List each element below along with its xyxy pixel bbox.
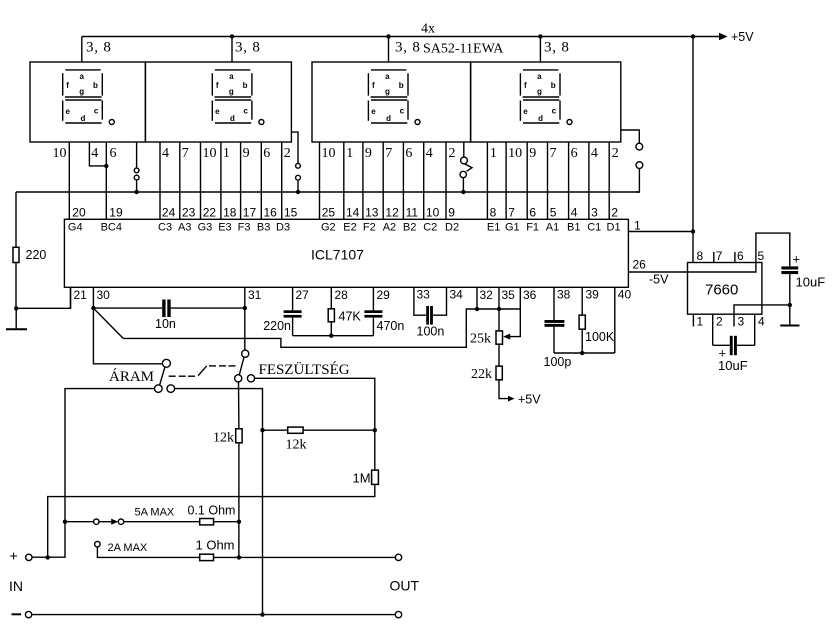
wire stub rail to display1 <box>81 37 83 63</box>
svg-text:6: 6 <box>405 146 412 161</box>
display DIS1 7-segment glyph <box>63 70 115 125</box>
+5V arrow bottom <box>508 396 515 402</box>
wire ICL pin33 stub <box>414 287 426 315</box>
capacitor 10n <box>162 300 171 318</box>
svg-text:10: 10 <box>426 206 440 220</box>
svg-text:1 Ohm: 1 Ohm <box>196 538 235 553</box>
jumper J2 display2 decimal point <box>291 132 300 192</box>
svg-text:1: 1 <box>634 219 641 233</box>
svg-text:220: 220 <box>26 248 47 262</box>
resistor 0.1 Ohm <box>200 519 214 525</box>
wire ICL pin26 to 7660 <box>628 271 687 273</box>
svg-text:SA52-11EWA: SA52-11EWA <box>423 42 504 57</box>
wire 12k-h node <box>263 429 288 431</box>
svg-text:100p: 100p <box>544 355 572 369</box>
wire display3 pin6 to ICL pin11 <box>402 142 404 219</box>
svg-text:7: 7 <box>550 146 557 161</box>
wiper arrow <box>503 334 510 340</box>
svg-text:24: 24 <box>162 206 176 220</box>
wire FESZ left contact down <box>238 382 240 429</box>
svg-text:4: 4 <box>91 146 98 161</box>
wire 38-39-40 join <box>554 352 615 354</box>
wire ICL pin1 to +5V drop <box>628 231 693 233</box>
capacitor 470n <box>364 310 382 317</box>
pin 7 stub <box>713 252 715 263</box>
wire switch common run <box>123 309 520 347</box>
display DIS2 7-segment glyph <box>212 70 264 125</box>
svg-text:7: 7 <box>385 146 392 161</box>
svg-text:13: 13 <box>365 206 379 220</box>
wire ICL pin32 stub <box>476 287 478 309</box>
jumper J4 display4 decimal point <box>621 130 643 192</box>
svg-text:0.1 Ohm: 0.1 Ohm <box>188 504 236 518</box>
junction pin35 <box>497 307 501 311</box>
svg-text:6: 6 <box>263 146 270 161</box>
wire 10n to pin31 <box>171 307 245 309</box>
svg-text:18: 18 <box>223 206 237 220</box>
wire display2 pin9 to ICL pin17 <box>240 142 242 219</box>
wire 220 to ground node <box>15 263 17 309</box>
display DIS2 box <box>145 62 291 142</box>
wire stub rail to display3 <box>388 37 390 63</box>
wire bottom cap to pin4 <box>737 344 755 346</box>
svg-text:4: 4 <box>162 146 169 161</box>
display DIS4 7-segment glyph <box>520 70 572 125</box>
svg-text:+: + <box>10 548 18 564</box>
svg-text:A1: A1 <box>546 222 559 234</box>
svg-text:3: 3 <box>738 315 745 329</box>
svg-text:4: 4 <box>571 206 578 220</box>
capacitor 100n <box>426 306 433 325</box>
svg-text:B3: B3 <box>257 222 270 234</box>
svg-text:12: 12 <box>385 206 399 220</box>
junction 1M top <box>373 428 377 432</box>
wire ICL pin28 stub <box>330 287 332 309</box>
svg-text:E3: E3 <box>218 222 231 234</box>
junction 47K bottom <box>329 334 333 338</box>
svg-text:22: 22 <box>203 206 217 220</box>
svg-text:27: 27 <box>296 288 310 302</box>
wire ICL pin21 stub <box>70 287 72 308</box>
wire bus down to R 220 <box>15 192 17 247</box>
wire display4 pin9 to ICL pin6 <box>526 142 528 219</box>
svg-text:4: 4 <box>591 146 598 161</box>
junction J2 on DP bus <box>296 190 300 194</box>
ground symbol left <box>6 308 27 329</box>
wire ICL pin35 stub <box>498 287 500 331</box>
svg-text:8: 8 <box>490 206 497 220</box>
terminal plus IN <box>26 554 32 560</box>
ground symbol right <box>780 325 799 327</box>
pin 2 stub 7660 <box>712 314 714 345</box>
wire 12k-h to 1M node <box>303 429 375 431</box>
svg-text:ÁRAM: ÁRAM <box>109 368 154 385</box>
wire FESZ right contact to 1M <box>255 378 375 430</box>
svg-text:D2: D2 <box>445 222 459 234</box>
svg-text:26: 26 <box>633 258 647 272</box>
svg-text:1: 1 <box>346 146 353 161</box>
wire 1M bottom to plus input <box>48 484 375 557</box>
wire display4 pin1 to ICL pin8 <box>486 142 488 219</box>
svg-text:15: 15 <box>284 206 298 220</box>
svg-text:9: 9 <box>448 206 455 220</box>
svg-text:6: 6 <box>737 249 744 263</box>
wire +5V top rail <box>82 36 721 38</box>
svg-text:B2: B2 <box>403 222 416 234</box>
svg-text:A3: A3 <box>178 222 191 234</box>
wire DP bus <box>16 191 639 193</box>
svg-text:220n: 220n <box>263 319 291 333</box>
terminal OUT minus <box>395 611 401 617</box>
junction rail-display2 <box>230 34 234 38</box>
junction rail-display3 <box>386 34 390 38</box>
svg-text:IN: IN <box>9 578 23 594</box>
wire display4 pin6 to ICL pin4 <box>568 142 570 219</box>
wire display4 pin7 to ICL pin5 <box>547 142 549 219</box>
wire 22k to +5V <box>499 380 508 399</box>
junction J1 on DP bus <box>134 190 138 194</box>
resistor 12k horizontal <box>288 427 303 433</box>
wire display2 pin4 to ICL pin24 <box>159 142 161 219</box>
wire display2 pin10 to ICL pin22 <box>200 142 202 219</box>
svg-text:OUT: OUT <box>390 578 420 594</box>
junction pin31 node <box>243 306 247 310</box>
svg-text:47K: 47K <box>339 310 362 324</box>
terminal minus IN <box>25 611 31 617</box>
svg-text:3, 8: 3, 8 <box>86 40 112 56</box>
wire stub rail to display4 <box>539 37 541 63</box>
wire -5V through box to pin5 and cap <box>688 233 790 272</box>
wire ICL pin38 stub <box>553 287 555 320</box>
junction pin30 node <box>91 306 95 310</box>
wire pin30 diagonal <box>93 308 123 338</box>
svg-text:9: 9 <box>365 146 372 161</box>
svg-text:10: 10 <box>508 146 522 161</box>
svg-text:6: 6 <box>529 206 536 220</box>
wire ICL pin40 stub <box>614 287 616 353</box>
svg-text:35: 35 <box>502 288 516 302</box>
svg-text:6: 6 <box>110 146 117 161</box>
wire pin30 down <box>93 308 162 364</box>
svg-text:10uF: 10uF <box>718 358 748 373</box>
svg-text:40: 40 <box>618 288 632 302</box>
svg-text:3, 8: 3, 8 <box>395 40 421 56</box>
junction J3 on DP bus <box>461 190 465 194</box>
svg-text:11: 11 <box>406 206 419 220</box>
wire 12k down to shunt taps <box>238 443 240 558</box>
junction rail-display4 <box>538 34 542 38</box>
junction pin4-pin6 <box>104 164 108 168</box>
svg-text:29: 29 <box>377 288 391 302</box>
svg-text:E1: E1 <box>487 222 500 234</box>
svg-text:470n: 470n <box>377 319 405 333</box>
svg-text:5: 5 <box>550 206 557 220</box>
wire display1 pin4 <box>89 142 106 166</box>
svg-text:B1: B1 <box>567 222 580 234</box>
svg-text:3, 8: 3, 8 <box>544 40 570 56</box>
junction 12k/2A tap <box>237 555 241 559</box>
potentiometer 25k <box>496 331 503 344</box>
svg-text:+: + <box>793 252 801 267</box>
junction cap/pin3 <box>788 303 792 307</box>
svg-text:BC4: BC4 <box>101 222 122 234</box>
svg-text:4: 4 <box>758 315 765 329</box>
svg-text:4: 4 <box>426 146 433 161</box>
svg-text:16: 16 <box>264 206 278 220</box>
wire display4 pin4 to ICL pin3 <box>588 142 590 219</box>
svg-text:5A MAX: 5A MAX <box>135 507 175 519</box>
wire ARAM left contact to plus input <box>32 389 155 558</box>
jumper J1 display1 decimal point <box>134 142 139 192</box>
wire ICL pin39 stub <box>581 287 583 315</box>
resistor 1M <box>372 470 379 484</box>
junction 220/pin21/ground <box>14 306 18 310</box>
switch link dashes <box>169 366 236 376</box>
wire 0.1 Ohm to tap <box>214 521 239 523</box>
wire 470n down <box>372 318 374 336</box>
display DIS3 7-segment glyph <box>368 70 420 125</box>
svg-text:1M: 1M <box>353 471 371 486</box>
display DIS1 box <box>30 62 145 142</box>
wire ICL pin27 stub <box>292 287 294 310</box>
svg-text:E2: E2 <box>343 222 356 234</box>
junction 12k-h left <box>260 428 264 432</box>
capacitor C+ 10uF right <box>781 266 798 274</box>
resistor 47K <box>328 309 334 322</box>
wire display2 pin6 to ICL pin16 <box>260 142 262 219</box>
svg-text:100K: 100K <box>585 330 615 344</box>
svg-text:-5V: -5V <box>649 273 669 287</box>
wire pin2 to bottom cap <box>713 344 730 346</box>
svg-text:2A MAX: 2A MAX <box>108 542 148 554</box>
wire display3 pin9 to ICL pin13 <box>362 142 364 219</box>
switch S1a ARAM <box>155 359 175 392</box>
wire display2 pin7 to ICL pin23 <box>179 142 181 219</box>
svg-text:F3: F3 <box>238 222 251 234</box>
resistor 220 <box>13 247 19 262</box>
svg-text:33: 33 <box>417 288 431 302</box>
wire node to ICL pin21 <box>16 287 70 308</box>
svg-text:8: 8 <box>697 249 704 263</box>
wire 27-28-29 join <box>293 335 374 337</box>
wire 47K down <box>330 322 332 336</box>
svg-text:34: 34 <box>450 288 464 302</box>
svg-text:F2: F2 <box>363 222 376 234</box>
wire right cap down <box>789 274 791 325</box>
junction pin1/+5V <box>691 229 695 233</box>
jumper J3 display3 decimal point (closed) <box>460 142 472 192</box>
svg-text:20: 20 <box>72 206 86 220</box>
svg-text:14: 14 <box>346 206 360 220</box>
svg-text:3: 3 <box>591 206 598 220</box>
svg-text:30: 30 <box>97 288 111 302</box>
svg-text:36: 36 <box>523 288 537 302</box>
wire display2 pin2 to ICL pin15 <box>281 142 283 219</box>
junction minus line <box>260 612 264 616</box>
svg-text:25k: 25k <box>470 332 491 347</box>
connector 2A socket <box>95 541 200 557</box>
display DIS4 box <box>471 62 621 142</box>
svg-text:28: 28 <box>335 288 349 302</box>
svg-text:G3: G3 <box>198 222 213 234</box>
svg-text:7: 7 <box>508 206 515 220</box>
wire display2 pin1 to ICL pin18 <box>220 142 222 219</box>
svg-text:25: 25 <box>322 206 336 220</box>
svg-text:100n: 100n <box>417 325 445 339</box>
svg-text:F1: F1 <box>526 222 539 234</box>
svg-text:2: 2 <box>449 146 456 161</box>
resistor 12k vertical <box>236 429 242 443</box>
svg-text:7: 7 <box>716 249 723 263</box>
svg-text:9: 9 <box>243 146 250 161</box>
+5V arrow <box>719 33 728 41</box>
pin 4 stub 7660 <box>754 314 756 345</box>
svg-text:10: 10 <box>203 146 217 161</box>
wire 25k to 22k <box>498 344 500 366</box>
svg-text:10uF: 10uF <box>796 275 826 290</box>
svg-text:3, 8: 3, 8 <box>235 40 261 56</box>
capacitor C- 10uF bottom <box>730 336 737 355</box>
connector plug 5A <box>94 519 124 525</box>
svg-text:5: 5 <box>758 249 765 263</box>
svg-text:C1: C1 <box>587 222 601 234</box>
junction 12k/5A tap <box>237 520 241 524</box>
wire ICL pin36 to wiper <box>510 287 520 336</box>
svg-text:1: 1 <box>697 315 704 329</box>
svg-text:7660: 7660 <box>705 282 738 299</box>
resistor 100K <box>579 315 585 329</box>
svg-text:2: 2 <box>284 146 291 161</box>
svg-text:1: 1 <box>490 146 497 161</box>
wire 1M top lead <box>374 430 376 470</box>
wire 100K down <box>581 329 583 353</box>
svg-text:D1: D1 <box>607 222 621 234</box>
svg-text:+5V: +5V <box>518 393 541 407</box>
wire ARAM right contact down <box>175 389 263 615</box>
svg-text:31: 31 <box>248 288 262 302</box>
svg-text:C2: C2 <box>423 222 437 234</box>
svg-text:G2: G2 <box>321 222 336 234</box>
svg-text:G4: G4 <box>68 222 83 234</box>
pin 3 stub and internal wire to cap node <box>734 305 790 327</box>
svg-text:+5V: +5V <box>731 30 754 44</box>
svg-text:7: 7 <box>182 146 189 161</box>
switch S1b FESZULTSEG <box>235 350 255 382</box>
wire display1 pin6 to ICL pin19 <box>105 142 107 219</box>
wire ICL pin31 down to switch <box>244 287 246 350</box>
junction sense/5A <box>63 520 67 524</box>
svg-text:6: 6 <box>571 146 578 161</box>
svg-text:12k: 12k <box>213 431 234 446</box>
resistor 22k <box>496 366 502 380</box>
svg-text:2: 2 <box>612 146 619 161</box>
wire 1 Ohm to OUT <box>214 556 396 558</box>
wire display4 pin10 to ICL pin7 <box>505 142 507 219</box>
svg-text:2: 2 <box>611 206 618 220</box>
capacitor 220n <box>284 310 302 317</box>
junction rail to +5V drop <box>691 34 695 38</box>
label minus <box>12 613 22 615</box>
wire 100p down <box>553 327 555 353</box>
svg-text:A2: A2 <box>383 222 396 234</box>
wire display3 pin7 to ICL pin12 <box>382 142 384 219</box>
svg-text:2: 2 <box>716 315 723 329</box>
wire +5V drop to 7660 pin8 <box>692 37 694 263</box>
svg-text:12k: 12k <box>286 438 307 453</box>
wire stub rail to display2 <box>231 37 233 63</box>
capacitor 100p <box>545 320 565 327</box>
svg-text:32: 32 <box>480 288 494 302</box>
svg-text:1: 1 <box>223 146 230 161</box>
svg-text:4x: 4x <box>421 21 435 36</box>
svg-text:10n: 10n <box>155 317 176 331</box>
wire 5A to shunt 0.1 <box>124 521 200 523</box>
pin 6 stub <box>734 252 736 263</box>
svg-text:C3: C3 <box>158 222 172 234</box>
svg-text:10: 10 <box>53 146 67 161</box>
pin 1 stub 7660 <box>692 314 694 326</box>
wire display4 pin2 to ICL pin2 <box>608 142 610 219</box>
svg-text:G1: G1 <box>505 222 520 234</box>
wire ICL pin29 stub <box>372 287 374 310</box>
wire pin30 to 10n <box>93 307 162 309</box>
svg-text:21: 21 <box>74 288 88 302</box>
svg-text:ICL7107: ICL7107 <box>311 247 364 263</box>
wire display3 pin1 to ICL pin14 <box>343 142 345 219</box>
display DIS3 box <box>312 62 471 142</box>
svg-text:19: 19 <box>109 206 123 220</box>
svg-text:17: 17 <box>243 206 257 220</box>
terminal OUT plus <box>395 554 401 560</box>
wire display3 pin10 to ICL pin25 <box>319 142 321 219</box>
svg-text:23: 23 <box>182 206 196 220</box>
op-amp U1 ICL7107 box <box>64 219 628 287</box>
wire ICL pin30 stub <box>92 287 94 308</box>
wire 5A line left <box>65 521 94 523</box>
svg-text:38: 38 <box>557 288 571 302</box>
svg-text:39: 39 <box>586 288 600 302</box>
wire display3 pin2 to ICL pin9 <box>445 142 447 219</box>
wire display1 pin10 to ICL pin20 <box>68 142 70 219</box>
svg-text:10: 10 <box>322 146 336 161</box>
junction plus input <box>46 555 50 559</box>
wire 100n to pin34 <box>433 287 447 315</box>
svg-text:22k: 22k <box>471 367 492 382</box>
wire minus line <box>32 614 396 616</box>
resistor 1 Ohm <box>200 554 214 560</box>
wire display3 pin4 to ICL pin10 <box>423 142 425 219</box>
wire 220n down <box>292 318 294 336</box>
junction 100K bottom <box>580 351 584 355</box>
svg-text:FESZÜLTSÉG: FESZÜLTSÉG <box>259 361 350 378</box>
charge pump U2 7660 box <box>688 263 762 315</box>
svg-text:D3: D3 <box>276 222 290 234</box>
junction pin32 <box>475 307 479 311</box>
svg-text:9: 9 <box>529 146 536 161</box>
